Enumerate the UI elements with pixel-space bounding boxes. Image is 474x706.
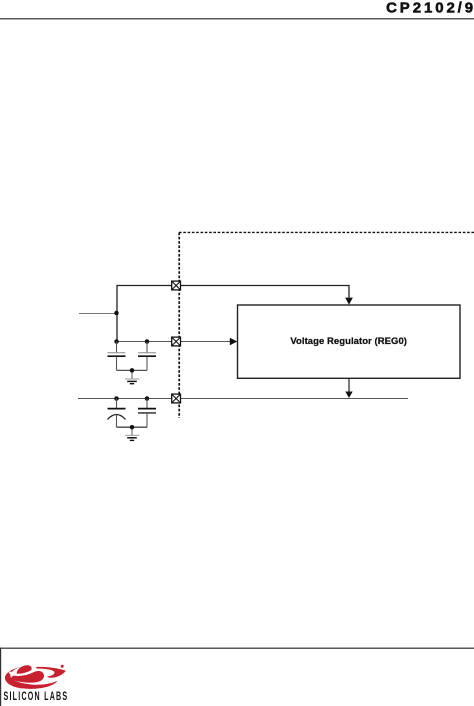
svg-text:CP2102/9: CP2102/9 bbox=[386, 0, 474, 17]
svg-text:Voltage Regulator (REG0): Voltage Regulator (REG0) bbox=[290, 336, 407, 347]
svg-text:SILICON LABS: SILICON LABS bbox=[4, 690, 69, 703]
